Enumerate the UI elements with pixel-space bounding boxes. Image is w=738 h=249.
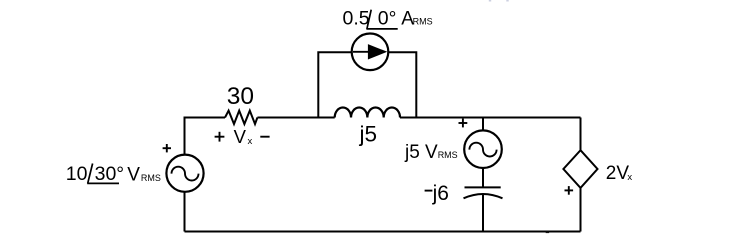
plus sign of V1 [163, 144, 171, 152]
wire: current-source loop right leg [389, 52, 417, 117]
svg-text:10: 10 [66, 163, 88, 185]
label 10/30deg Vrms (V1 value) [66, 163, 161, 186]
svg-text:RMS: RMS [141, 173, 161, 183]
label -j6 (capacitor value) [425, 182, 449, 205]
svg-text:j5: j5 [404, 142, 420, 163]
wire: left branch top (source to top-left corner to resistor) [185, 118, 226, 155]
wire: current-source loop left leg [318, 52, 352, 117]
label j5 (inductor value) [359, 122, 378, 147]
svg-text:j6: j6 [432, 182, 449, 205]
dependent source 2Vx (diamond) [563, 150, 597, 188]
svg-text:RMS: RMS [438, 150, 458, 160]
label + Vx - (voltage across resistor) [215, 132, 270, 142]
svg-text:30°: 30° [95, 163, 125, 185]
wire: right branch upper lead [580, 118, 582, 151]
svg-text:x: x [248, 136, 253, 147]
stray mark on bottom rail [546, 232, 549, 233]
inductor j5 [335, 107, 400, 117]
wire: V1 bottom lead [184, 192, 186, 232]
label j5 Vrms (V2 value) [404, 142, 458, 163]
current source I1 0.5/0 Arms (circle with arrow) [352, 34, 389, 71]
wire: capacitor bottom lead [482, 195, 484, 232]
plus sign of V2 [459, 119, 468, 128]
svg-text:RMS: RMS [413, 16, 433, 26]
svg-text:V: V [234, 126, 247, 147]
resistor 30 (zigzag) [225, 111, 257, 124]
svg-text:2V: 2V [606, 163, 630, 184]
svg-text:j5: j5 [359, 122, 378, 147]
label 0.5/0deg Arms (current source value) [343, 7, 433, 29]
svg-text:30: 30 [227, 83, 254, 110]
angle symbol of V1 label [87, 164, 119, 184]
svg-text:V: V [425, 142, 438, 163]
wire: between V2 and capacitor [482, 168, 484, 187]
wire: top right (inductor to top-right corner) [400, 117, 581, 119]
plus sign of dependent source [565, 186, 574, 195]
svg-text:0°: 0° [378, 7, 397, 29]
voltage source V1 10/30 Vrms (circle with sine) [166, 155, 203, 192]
wire: right branch lower lead [580, 188, 582, 232]
svg-text:x: x [627, 172, 632, 183]
faint cropped marks at top edge [489, 0, 509, 2]
angle symbol of current source label [366, 10, 397, 29]
label 2Vx (dependent source value) [606, 163, 633, 184]
wire: j5 source top lead [482, 118, 484, 131]
svg-text:V: V [127, 165, 140, 186]
wire: bottom rail [185, 231, 581, 233]
label 30 [227, 83, 254, 110]
svg-text:0.5: 0.5 [343, 7, 370, 29]
capacitor -j6 [464, 187, 503, 198]
wire: top middle (resistor to inductor) [257, 117, 334, 119]
voltage source V2 j5 Vrms (circle with sine) [464, 130, 502, 168]
